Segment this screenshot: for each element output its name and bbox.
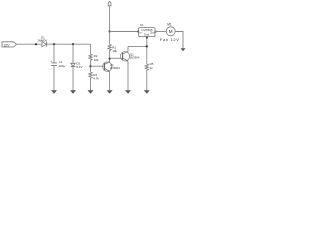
node junction reg gnd / Q2 collector: [146, 45, 148, 47]
wire R1 to base node: [109, 52, 111, 59]
capacitor C1: [50, 59, 65, 68]
ground Q2 emitter: [125, 90, 131, 94]
svg-text:10k: 10k: [112, 49, 117, 53]
svg-text:10k: 10k: [94, 58, 99, 62]
wire R2 to node: [90, 61, 92, 72]
svg-text:+: +: [50, 59, 52, 63]
wire D2 to ground: [72, 67, 74, 91]
node divider junction: [89, 65, 91, 67]
wire R3 to ground: [90, 79, 92, 90]
svg-text:U1: U1: [140, 23, 144, 27]
net flag 12V input: [2, 42, 17, 48]
wire node to R1: [109, 32, 111, 45]
resistor R1: [108, 44, 118, 53]
wire Q1 emitter to ground: [109, 71, 111, 90]
diode D1 1N4004: [37, 35, 47, 46]
ground divider: [88, 90, 94, 94]
resistor R2: [89, 54, 99, 62]
svg-text:12V: 12V: [3, 43, 10, 47]
node junction Q1 collector / Q2 base: [109, 58, 111, 60]
svg-text:5.1V: 5.1V: [76, 65, 82, 69]
svg-text:Gnd: Gnd: [144, 33, 150, 37]
svg-text:M: M: [169, 29, 173, 34]
svg-text:M1: M1: [167, 22, 172, 26]
wire reg out to motor: [155, 31, 166, 33]
ground D2: [70, 90, 76, 94]
ground right: [181, 48, 186, 51]
wire motor to right ground: [175, 32, 183, 49]
svg-text:100µ: 100µ: [59, 64, 66, 68]
transistor Q2 2N3904: [120, 46, 140, 61]
svg-text:1k: 1k: [150, 66, 154, 70]
transistor Q1 2N3904: [103, 59, 121, 73]
svg-text:2N3904: 2N3904: [130, 55, 140, 59]
ground C1: [51, 90, 57, 94]
ground Q1 emitter: [107, 90, 113, 94]
wire divider node to Q1 base: [91, 65, 105, 67]
motor M1 fan: [160, 22, 180, 42]
node junction reg input: [109, 30, 111, 32]
svg-text:1N4004: 1N4004: [37, 38, 47, 42]
capacitor C1 column wire: [53, 44, 55, 63]
wire Q2 collector to reg gnd node: [128, 45, 147, 47]
wire rail corner down to R2: [90, 44, 92, 54]
wire reg input: [110, 31, 139, 33]
wire diode to divider corner: [46, 43, 90, 45]
wire C1 to ground: [53, 66, 55, 91]
wire reg gnd down: [146, 39, 148, 65]
zener diode D2: [71, 62, 83, 70]
svg-text:Fan 12V: Fan 12V: [160, 37, 180, 42]
svg-text:4.7k: 4.7k: [93, 76, 99, 80]
wire top flag down: [109, 6, 111, 32]
svg-text:Out: Out: [150, 30, 155, 34]
wire R5 to ground: [146, 71, 148, 90]
regulator U1 LM7805: [137, 23, 156, 38]
resistor R5: [145, 62, 154, 71]
net flag 12V top: [108, 1, 111, 6]
junction node at C1: [53, 43, 55, 45]
zener D2 column wire: [72, 44, 74, 63]
ground R5: [144, 90, 150, 94]
junction node at D2: [72, 43, 74, 45]
wire Q2 emitter to ground: [127, 61, 129, 90]
wire input flag to diode: [17, 43, 42, 45]
svg-text:2N3904: 2N3904: [110, 66, 120, 70]
resistor R3: [89, 72, 100, 80]
node junction on input wire: [35, 43, 37, 45]
wire node to Q2 base: [110, 57, 123, 59]
